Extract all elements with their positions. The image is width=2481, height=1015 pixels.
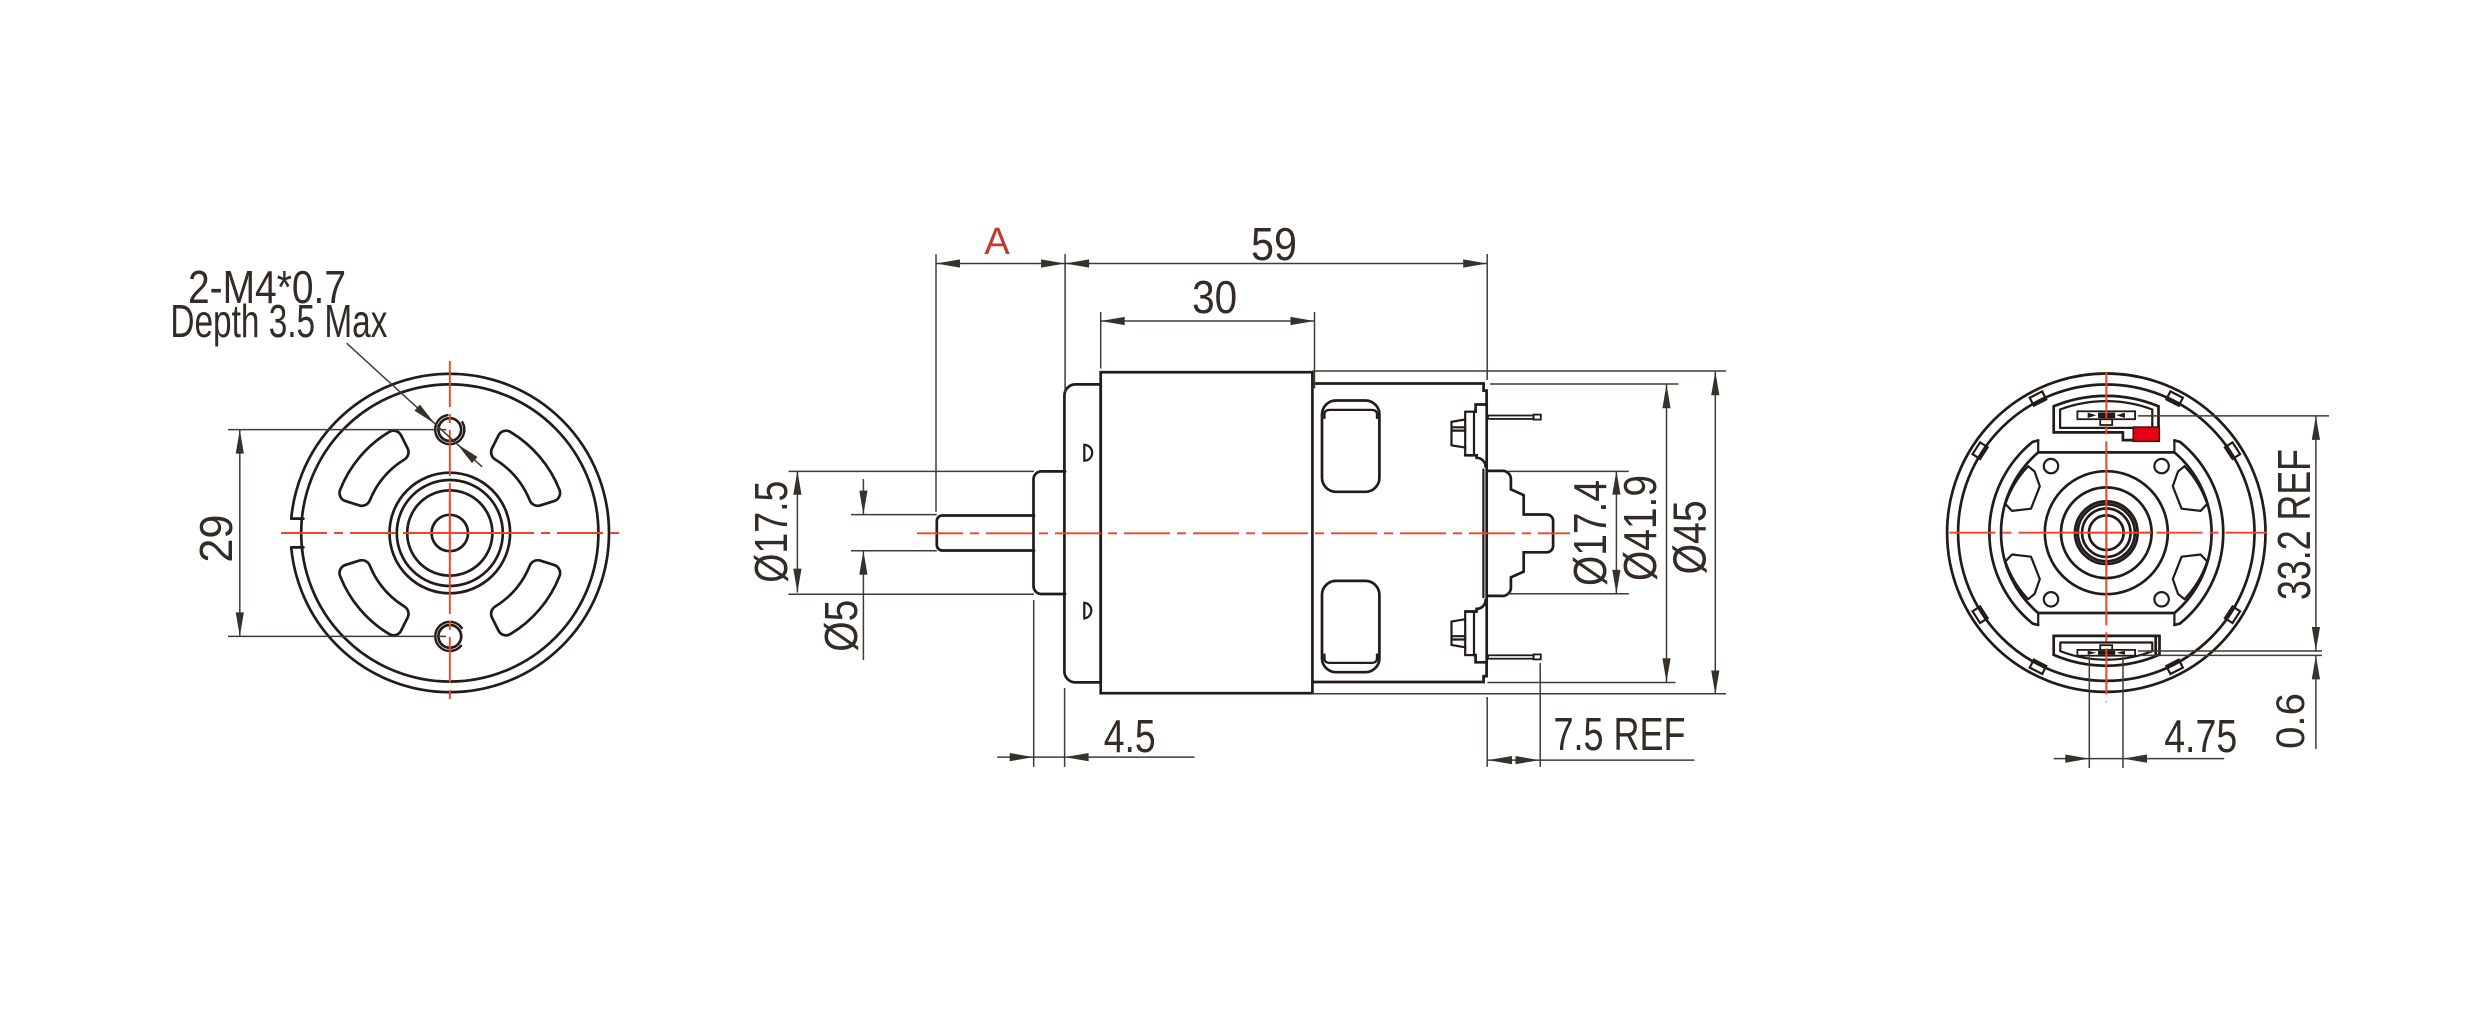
front view inner rim circle (301, 384, 598, 681)
front view left notch (287, 519, 299, 547)
front view (281, 361, 619, 700)
front view boss circle 1 (390, 473, 511, 594)
rear crescent arc right (2174, 440, 2223, 625)
svg-text:Ø45: Ø45 (1664, 500, 1716, 574)
rear view (1947, 372, 2267, 702)
dimension 30 (1101, 271, 1315, 389)
brush cap top body (1452, 420, 1466, 448)
svg-text:Depth 3.5 Max: Depth 3.5 Max (170, 295, 387, 347)
rear center cross (2061, 488, 2151, 578)
svg-text:Ø17.4: Ø17.4 (1564, 480, 1616, 586)
svg-text:59: 59 (1251, 218, 1297, 270)
dimension 0.6 (2140, 655, 2323, 749)
svg-text:4.5: 4.5 (1104, 710, 1156, 762)
dimension dia 41.9 (1487, 384, 1678, 683)
rear view horizontal centerline (1950, 532, 2267, 534)
rear brush housing top (2054, 396, 2159, 433)
front view center cross (405, 488, 495, 578)
rear terminal bar bottom (2077, 650, 2135, 656)
dimension 4.75 (2054, 657, 2238, 768)
motor can (1101, 372, 1313, 693)
svg-text:29: 29 (190, 515, 242, 563)
terminal pin top (1488, 416, 1534, 419)
brush cap bottom body (1452, 619, 1466, 647)
rear vents (2005, 466, 2039, 511)
rear endcap rim (1465, 405, 1487, 663)
dimension 33.2 REF (2138, 416, 2329, 651)
svg-text:Ø17.5: Ø17.5 (745, 481, 797, 583)
rear crescent arc left (1989, 440, 2038, 625)
rear center rings (2045, 471, 2168, 594)
rear crimp tabs (1973, 391, 2241, 674)
side view (917, 372, 1570, 693)
leader line to M4 hole (347, 343, 483, 467)
rear can section (1312, 384, 1486, 683)
front view horizontal centerline (281, 532, 619, 534)
dimension dia 17.5 (745, 471, 1034, 594)
rear vent hole top (1322, 401, 1379, 492)
dimension 29 (190, 430, 446, 637)
front view vent slot lower-right (491, 560, 560, 635)
rear stator plate corner ticks (2038, 440, 2174, 625)
dimension dia 17.4 (1508, 471, 1629, 594)
front endcap (1064, 384, 1100, 682)
rear bearing boss (1488, 471, 1553, 596)
dimension dia 45 (1312, 371, 1726, 695)
svg-text:Ø5: Ø5 (815, 600, 867, 652)
rear housing step (2123, 432, 2133, 440)
svg-text:33.2 REF: 33.2 REF (2268, 449, 2320, 600)
bearing boss (1034, 471, 1066, 594)
brush cap top base (1465, 412, 1474, 456)
shaft (937, 516, 1034, 551)
front view M4 hole top (438, 418, 461, 441)
front view vertical centerline (449, 361, 451, 700)
front view M4 hole bottom (438, 625, 461, 648)
svg-text:7.5 REF: 7.5 REF (1554, 708, 1686, 760)
terminal pin bottom (1488, 655, 1534, 658)
svg-text:4.75: 4.75 (2164, 710, 2237, 762)
svg-text:A: A (984, 221, 1010, 263)
dimension 4.5 (997, 600, 1194, 767)
front view vent slot upper-left (340, 431, 409, 506)
dimension 59 (1065, 218, 1487, 392)
brush cap bottom base (1465, 612, 1474, 656)
red index mark (2133, 427, 2159, 441)
rear stator plate (2001, 452, 2212, 613)
front view vent slot lower-left (340, 560, 409, 635)
rear second circle (1958, 385, 2254, 681)
rear outer circle (1947, 374, 2265, 692)
rear brush housing bottom (2054, 636, 2160, 666)
front view outer circle (291, 374, 609, 692)
svg-text:30: 30 (1192, 271, 1237, 323)
front view boss circle 2 (397, 480, 503, 586)
rear screw holes (2154, 459, 2168, 473)
svg-text:Ø41.9: Ø41.9 (1614, 475, 1666, 581)
dimension A (936, 221, 1065, 512)
front endcap rivet top (1084, 445, 1092, 461)
side view centerline (917, 532, 1570, 534)
dimension dia 5 (815, 479, 937, 660)
rear view vertical centerline (2105, 372, 2107, 702)
front view shaft hole (432, 515, 468, 551)
rear vent hole bottom (1322, 581, 1379, 672)
rear terminal bar top (2077, 411, 2135, 419)
front view boss circle 3 (407, 490, 492, 575)
svg-text:0.6: 0.6 (2269, 693, 2313, 749)
dimension 7.5 REF (1487, 663, 1694, 767)
front endcap rivet bottom (1084, 603, 1091, 619)
front view vent slot upper-right (491, 431, 560, 506)
